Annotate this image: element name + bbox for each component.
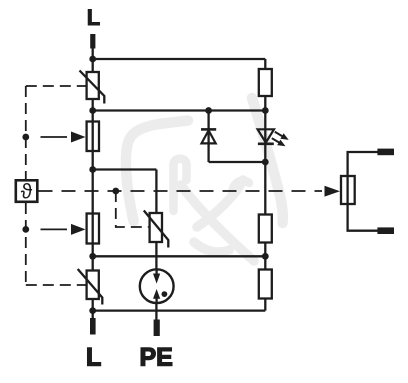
svg-text:PE: PE bbox=[140, 344, 173, 372]
svg-text:L: L bbox=[87, 5, 100, 30]
svg-text:ϑ: ϑ bbox=[21, 181, 33, 204]
svg-text:L: L bbox=[86, 344, 101, 372]
